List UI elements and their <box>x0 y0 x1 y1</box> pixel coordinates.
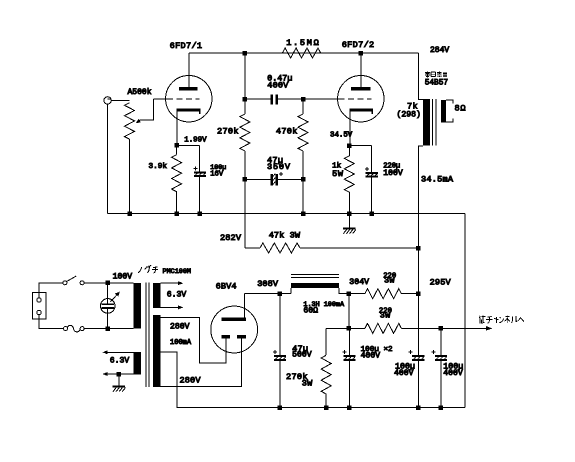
wire HV bottom lead to 6BV4 pin2 <box>161 339 242 387</box>
resistor 1k 5W <box>344 146 354 214</box>
node 282V left <box>243 177 248 182</box>
capacitor 47u 350V <box>245 172 303 186</box>
svg-text:270k: 270k <box>217 127 239 137</box>
wire to other channel with arrow <box>441 326 492 331</box>
wire cathode2 to cap <box>349 145 371 147</box>
svg-text:16V: 16V <box>210 171 224 179</box>
node 100ux2-rail <box>347 405 352 410</box>
svg-text:280V: 280V <box>180 376 202 386</box>
ground (top section) <box>343 214 356 234</box>
svg-text:60Ω: 60Ω <box>303 306 318 315</box>
svg-text:400V: 400V <box>394 369 414 378</box>
svg-text:PMC100M: PMC100M <box>163 268 192 276</box>
ground vertical right <box>464 214 466 408</box>
svg-text:295V: 295V <box>430 278 452 288</box>
top plate rail <box>189 52 419 54</box>
node 308V <box>278 291 283 296</box>
power transformer core <box>146 283 149 388</box>
rectifier 6BV4 <box>211 294 258 353</box>
input jack J1 <box>104 97 111 104</box>
ground (heater) <box>113 374 126 392</box>
triode U1a 6FD7/1 <box>166 53 212 145</box>
node 1k-rail <box>347 211 352 216</box>
resistor 270k 3W bleeder <box>321 328 349 407</box>
svg-text:6.3V: 6.3V <box>110 356 130 365</box>
node coupling cap left <box>243 97 248 102</box>
svg-text:1.5MΩ: 1.5MΩ <box>286 38 319 48</box>
capacitor 100u 16V <box>193 145 206 213</box>
node 220-3W right / 295V <box>416 292 421 297</box>
svg-text:350V: 350V <box>267 162 291 172</box>
svg-text:400V: 400V <box>267 81 289 91</box>
svg-text:34.5mA: 34.5mA <box>421 175 454 185</box>
label to other channel (katakana) <box>479 315 524 323</box>
wire plate1 drop <box>244 53 246 99</box>
node cathode2 junction <box>347 143 352 148</box>
svg-text:(298): (298) <box>397 111 421 120</box>
svg-text:1.99V: 1.99V <box>184 137 207 145</box>
choke 1.3H <box>291 275 349 294</box>
wire HV center tap to ground rail <box>161 352 281 408</box>
svg-text:3W: 3W <box>302 378 313 388</box>
node 470k-cap47u <box>301 177 306 182</box>
svg-text:470k: 470k <box>276 127 298 137</box>
node pot-rail <box>127 211 132 216</box>
resistor 470k <box>298 99 308 213</box>
resistor 220 3W lower <box>349 323 441 333</box>
svg-text:304V: 304V <box>349 278 369 287</box>
AC plug <box>32 293 46 319</box>
wire 282V drop to 47k <box>244 179 246 248</box>
node cap2-rail <box>439 405 444 410</box>
node arrow junction <box>439 326 444 331</box>
potentiometer A500k <box>125 103 135 214</box>
node 100V top <box>106 281 111 286</box>
output transformer 54B57 primary <box>423 99 430 146</box>
wire HV top lead to 6BV4 pin1 <box>161 318 226 363</box>
wire 6BV4 output to 308V node <box>245 293 292 295</box>
node 100V bottom <box>106 326 111 331</box>
capacitor 100u 400V second <box>431 328 447 407</box>
node 270k-rail <box>324 405 329 410</box>
node 47k-B+ <box>416 246 421 251</box>
power switch <box>63 276 84 285</box>
pot wiper arrow <box>136 99 154 123</box>
node 470k-rail <box>301 211 306 216</box>
resistor 3.9k <box>172 145 182 213</box>
label noguchi PMC100M <box>138 265 158 273</box>
node heater ground <box>117 372 122 377</box>
label maker kasuga <box>425 72 447 78</box>
svg-text:308V: 308V <box>257 279 279 289</box>
neon pilot lamp <box>100 283 119 329</box>
node 3.9k-rail <box>174 211 179 216</box>
wire plug top to switch <box>39 283 63 298</box>
capacitor 100u x2 400V <box>342 328 355 407</box>
svg-text:3W: 3W <box>384 276 395 286</box>
svg-text:400V: 400V <box>443 369 463 378</box>
wire switch to 100V node <box>84 282 134 284</box>
node 220u-rail <box>369 211 374 216</box>
resistor 220 3W upper <box>349 289 418 299</box>
triode U1b 6FD7/2 <box>338 53 384 146</box>
node 304V <box>347 292 352 297</box>
capacitor 220u 100V <box>365 146 378 214</box>
svg-text:6FD7/2: 6FD7/2 <box>342 40 375 50</box>
fuse <box>64 325 85 332</box>
bottom ground rail <box>280 407 465 409</box>
capacitor 47u 500V <box>273 294 286 408</box>
node cathode1 junction <box>174 143 179 148</box>
node coupling cap right <box>301 97 306 102</box>
svg-text:6BV4: 6BV4 <box>216 282 237 292</box>
node plate2-rail <box>359 51 364 56</box>
svg-text:6FD7/1: 6FD7/1 <box>170 41 203 51</box>
resistor 270k <box>240 99 250 179</box>
wire grid2 <box>303 98 338 100</box>
output transformer core <box>432 99 436 146</box>
svg-text:400V: 400V <box>361 351 381 360</box>
node cap1-rail <box>416 405 421 410</box>
node 47u500V-rail <box>278 405 283 410</box>
wire grid1 <box>154 98 168 100</box>
svg-text:8Ω: 8Ω <box>455 104 466 114</box>
wire cathode1 to cap <box>177 144 200 146</box>
heater winding 6.3V (left bottom) <box>102 350 141 376</box>
svg-text:6.3V: 6.3V <box>167 290 187 299</box>
svg-text:5W: 5W <box>332 169 344 179</box>
node cap16v-rail <box>197 211 202 216</box>
ground rail (top section) <box>108 213 465 215</box>
svg-text:34.5V: 34.5V <box>330 132 353 140</box>
HV winding 280-0-280 <box>153 315 160 387</box>
svg-text:282V: 282V <box>220 233 242 243</box>
svg-text:100V: 100V <box>113 273 133 282</box>
heater winding 6.3V (right top) <box>153 281 183 309</box>
resistor 47k 3W <box>245 243 418 253</box>
wire jack ground drop <box>107 104 109 213</box>
svg-text:A500k: A500k <box>128 88 152 97</box>
wire jack to pot <box>111 99 129 101</box>
wire fuse to transformer <box>84 328 134 330</box>
capacitor 0.47u 400V <box>245 94 304 104</box>
wire B+ drop from rail to OPT <box>419 53 423 99</box>
power transformer primary <box>134 283 141 329</box>
svg-text:100V: 100V <box>383 169 403 178</box>
svg-text:280V: 280V <box>170 322 190 331</box>
wire 304V drop <box>348 294 350 329</box>
svg-text:47k 3W: 47k 3W <box>269 231 301 241</box>
svg-text:54B57: 54B57 <box>425 80 449 88</box>
svg-text:3W: 3W <box>380 311 391 321</box>
wire plug bottom to fuse <box>39 315 64 329</box>
svg-text:284V: 284V <box>430 46 449 55</box>
resistor 1.5M feedback <box>282 48 320 58</box>
svg-text:100mA: 100mA <box>170 339 192 347</box>
node plate1-rail <box>243 51 248 56</box>
output transformer secondary <box>441 100 453 123</box>
svg-text:500V: 500V <box>292 351 312 360</box>
node 220-2 left <box>347 326 352 331</box>
svg-text:3.9k: 3.9k <box>149 163 168 171</box>
wire B+ vertical below OPT <box>418 146 423 355</box>
capacitor 100u 400V first <box>409 350 425 408</box>
